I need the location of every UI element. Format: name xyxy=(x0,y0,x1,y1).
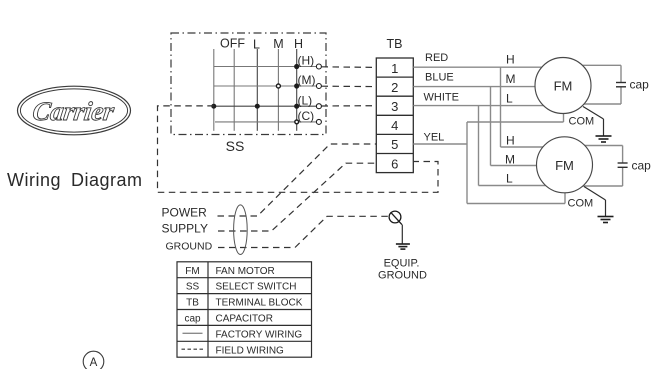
WHITE wire TB3 to motor1 L xyxy=(413,105,563,107)
svg-text:FAN MOTOR: FAN MOTOR xyxy=(216,266,275,277)
switch ring contacts xyxy=(276,84,298,124)
svg-text:cap: cap xyxy=(630,78,650,92)
svg-text:SELECT SWITCH: SELECT SWITCH xyxy=(216,282,297,293)
switch open terminal circles xyxy=(316,64,321,124)
svg-text:FM: FM xyxy=(554,79,573,94)
svg-text:L: L xyxy=(253,38,260,52)
svg-text:H: H xyxy=(506,134,515,148)
legend table xyxy=(177,262,312,357)
svg-text:GROUND: GROUND xyxy=(166,241,213,253)
revision mark A xyxy=(83,351,104,369)
svg-text:L: L xyxy=(506,172,513,186)
svg-text:BLUE: BLUE xyxy=(425,72,454,84)
drop wire to motor2 L xyxy=(478,106,480,186)
terminal block TB xyxy=(376,58,413,173)
capacitor cap1 circuit xyxy=(563,65,621,104)
svg-text:TB: TB xyxy=(387,37,403,51)
power line2 to TB6 xyxy=(218,163,376,231)
switch row labels (H)(M)(L)(C) xyxy=(298,54,316,124)
capacitor cap1 plates xyxy=(616,83,626,87)
svg-text:M: M xyxy=(273,37,283,51)
svg-text:M: M xyxy=(505,153,515,167)
svg-text:(M): (M) xyxy=(298,73,316,87)
cable loop symbol xyxy=(234,205,248,255)
COM bus vertical xyxy=(466,122,468,204)
power line1 to TB5 xyxy=(218,144,377,216)
switch M to TB2 xyxy=(322,85,377,87)
switch column labels OFF L M H xyxy=(220,37,303,52)
fan motor FM2 xyxy=(537,137,593,193)
drop wire to motor2 M xyxy=(490,87,492,166)
switch grid vertical wires xyxy=(214,49,297,131)
svg-text:3: 3 xyxy=(391,99,398,114)
svg-text:COM: COM xyxy=(569,116,595,128)
ground symbol motor2 xyxy=(598,217,614,223)
svg-text:FM: FM xyxy=(185,266,199,277)
switch grid row wires (H)(M)(L)(C) xyxy=(214,67,316,122)
legend texts xyxy=(184,266,302,357)
svg-text:RED: RED xyxy=(425,52,448,64)
fan motor FM1 xyxy=(535,58,591,114)
svg-text:2: 2 xyxy=(391,80,398,95)
BLUE wire TB2 to motor1 M xyxy=(413,86,563,88)
svg-text:6: 6 xyxy=(391,156,398,171)
svg-text:TERMINAL BLOCK: TERMINAL BLOCK xyxy=(216,298,303,309)
TB terminal numbers 1-6 xyxy=(391,61,398,172)
motor1 COM wire xyxy=(467,121,564,123)
legend field wiring symbol xyxy=(182,348,204,350)
select switch SS enclosure (dash-dot box) xyxy=(171,33,326,135)
ground symbol equip xyxy=(396,244,410,249)
power supply labels xyxy=(162,206,208,236)
capacitor cap2 circuit xyxy=(564,146,623,187)
svg-text:CAPACITOR: CAPACITOR xyxy=(216,314,273,325)
svg-text:(L): (L) xyxy=(298,94,313,108)
svg-text:GROUND: GROUND xyxy=(378,270,427,282)
ground symbol motor1 xyxy=(596,136,612,142)
svg-text:Wiring Diagram: Wiring Diagram xyxy=(7,170,143,190)
svg-text:H: H xyxy=(294,37,303,51)
motor1 ground wire xyxy=(583,107,604,136)
switch common wire to TB6 right xyxy=(158,106,439,192)
svg-text:TB: TB xyxy=(186,298,199,309)
factory wiring: RED wire TB1 to motor1 H xyxy=(413,67,565,203)
svg-text:cap: cap xyxy=(632,159,652,173)
svg-text:SUPPLY: SUPPLY xyxy=(162,222,208,236)
YEL wire TB5 to COM bus xyxy=(413,143,467,145)
switch L to TB3 xyxy=(322,105,377,107)
ground wire to equip ground xyxy=(218,216,389,247)
svg-text:Carrier: Carrier xyxy=(31,96,117,126)
svg-text:A: A xyxy=(90,357,98,369)
svg-text:FIELD WIRING: FIELD WIRING xyxy=(216,345,285,356)
svg-text:OFF: OFF xyxy=(220,37,245,51)
svg-text:YEL: YEL xyxy=(424,132,445,144)
svg-text:L: L xyxy=(506,91,513,105)
motor2 COM wire xyxy=(467,203,565,205)
svg-text:cap: cap xyxy=(184,314,201,325)
svg-text:(C): (C) xyxy=(298,109,315,123)
svg-text:(H): (H) xyxy=(298,54,315,68)
drop wire to motor2 H xyxy=(500,67,502,147)
svg-text:H: H xyxy=(506,53,515,67)
svg-text:M: M xyxy=(506,72,516,86)
svg-text:WHITE: WHITE xyxy=(424,92,459,104)
equipment ground symbol (circle with slash) xyxy=(389,211,402,244)
motor2 ground wire xyxy=(584,187,606,217)
svg-text:FACTORY WIRING: FACTORY WIRING xyxy=(216,329,303,340)
equip ground label xyxy=(378,258,427,282)
svg-text:EQUIP.: EQUIP. xyxy=(384,258,420,270)
svg-text:4: 4 xyxy=(391,118,398,133)
motor1 terminal labels H M L COM xyxy=(506,53,595,128)
svg-text:1: 1 xyxy=(391,61,398,76)
motor2 terminal labels H M L COM xyxy=(505,134,593,210)
capacitor cap2 plates xyxy=(618,163,628,167)
svg-text:5: 5 xyxy=(391,137,398,152)
switch contact dots xyxy=(211,64,299,109)
svg-text:SS: SS xyxy=(186,282,200,293)
Carrier logo xyxy=(18,86,131,135)
wire labels RED BLUE WHITE YEL xyxy=(424,52,459,144)
svg-text:SS: SS xyxy=(226,138,245,154)
svg-text:FM: FM xyxy=(555,158,574,173)
field wiring dashed: switch H to TB1 xyxy=(158,67,439,248)
svg-text:COM: COM xyxy=(568,198,594,210)
legend factory wiring symbol xyxy=(183,332,203,334)
svg-text:POWER: POWER xyxy=(162,206,208,220)
